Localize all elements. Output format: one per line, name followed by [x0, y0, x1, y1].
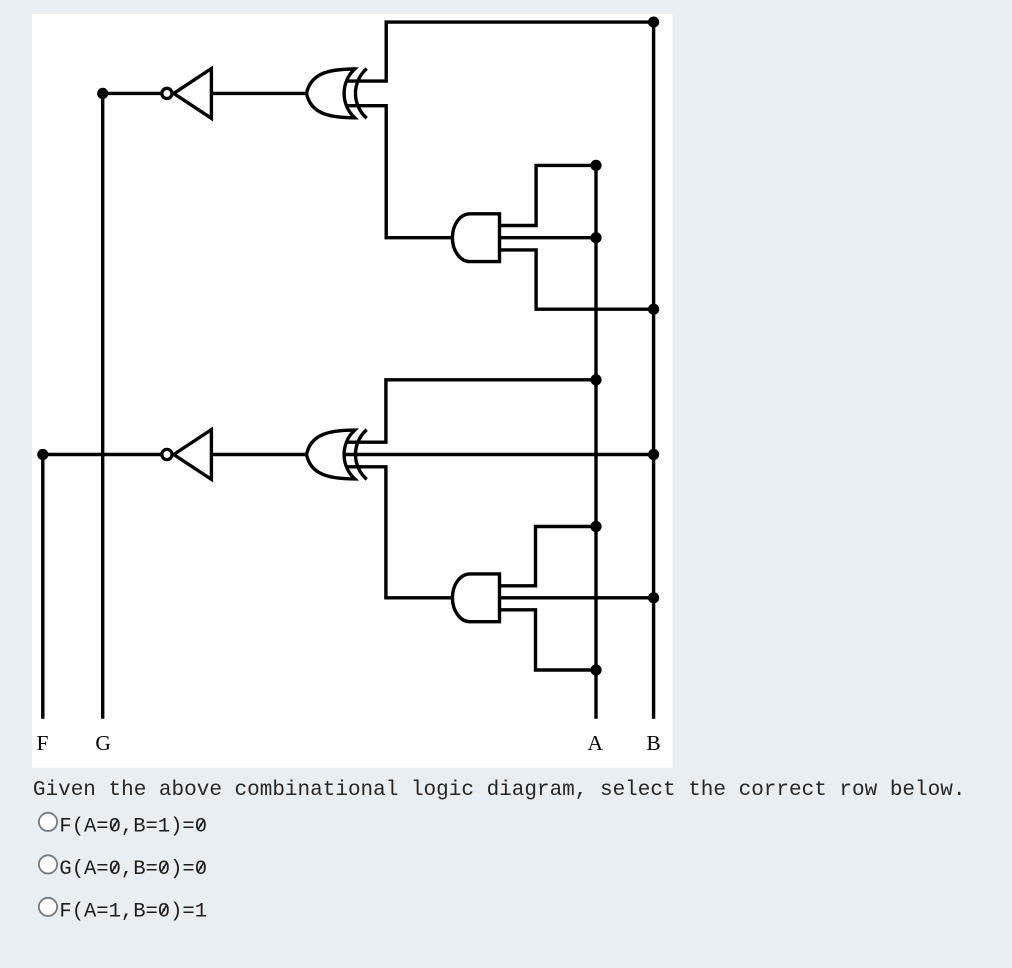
- junction node: XOR2 middle on B: [648, 449, 659, 460]
- AND gate A1 (top, mirrored, output left): [452, 214, 499, 262]
- slashed-zero marks: [112, 820, 204, 915]
- diagram canvas: [32, 14, 672, 768]
- wire: net B vertical run: [652, 22, 655, 719]
- svg-text:F(A=1,B=0)=1: F(A=1,B=0)=1: [59, 901, 207, 924]
- inverter U1 (top NOT gate, output left): [162, 69, 212, 119]
- wire: net G vertical run: [101, 93, 104, 718]
- wire: AND1 middle input pin to node A: [497, 236, 596, 239]
- junction node: AND2 upper on A: [590, 521, 601, 532]
- wire: AND2 lower input pin to node A: [497, 610, 596, 670]
- wire: inverter U2 input from XOR2 output: [211, 453, 307, 456]
- wire: node F to inverter U2 output bubble: [43, 453, 161, 456]
- svg-text:Given the above combinational: Given the above combinational logic diag…: [33, 779, 966, 802]
- XOR gate X1 (top, mirrored, output left): [307, 69, 367, 119]
- junction node: A line top: [590, 160, 601, 171]
- wire: inverter U1 input from XOR1 output: [211, 92, 307, 95]
- junction node: F output: [37, 449, 48, 460]
- junction node: AND1 lower on B: [648, 304, 659, 315]
- wire: AND2 upper input pin to node A: [497, 527, 596, 586]
- svg-text:A: A: [588, 731, 604, 755]
- junction node: AND1 middle on A: [590, 232, 601, 243]
- wire: AND2 middle input pin to node B: [497, 596, 654, 599]
- wire: node G to inverter U1 output bubble: [103, 92, 161, 95]
- svg-text:F(A=0,B=1)=0: F(A=0,B=1)=0: [59, 816, 207, 839]
- wire: XOR2 lower input down to AND2 output: [345, 467, 458, 598]
- wire: AND1 upper input pin to node A: [497, 165, 596, 225]
- AND gate A2 (bottom, mirrored, output left): [452, 574, 499, 622]
- wire: AND1 lower input pin to node B: [497, 250, 654, 309]
- wire: XOR2 upper input to node A: [345, 380, 596, 442]
- junction node: B line top: [648, 17, 659, 28]
- wire: XOR2 middle input to node B: [344, 453, 654, 456]
- radio button option 1: [39, 813, 57, 831]
- junction node: AND2 middle on B: [648, 592, 659, 603]
- svg-text:B: B: [646, 731, 660, 755]
- wire: net F vertical run: [41, 455, 44, 719]
- XOR gate X2 (bottom, mirrored, output left): [307, 430, 367, 480]
- svg-text:F: F: [37, 731, 49, 755]
- junction node: AND2 lower on A: [590, 664, 601, 675]
- inverter U2 (bottom NOT gate, output left): [162, 430, 212, 480]
- junction node: G output: [97, 88, 108, 99]
- svg-text:G(A=0,B=0)=0: G(A=0,B=0)=0: [59, 858, 207, 881]
- svg-text:G: G: [95, 731, 111, 755]
- junction node: XOR2 upper on A: [590, 374, 601, 385]
- wire: B top feed to XOR1 upper input (net B): [345, 22, 654, 81]
- wire: net A vertical run: [594, 165, 597, 718]
- radio button option 3: [39, 898, 57, 916]
- radio button option 2: [39, 855, 57, 873]
- wire: XOR1 lower input down to AND1 output: [345, 106, 458, 238]
